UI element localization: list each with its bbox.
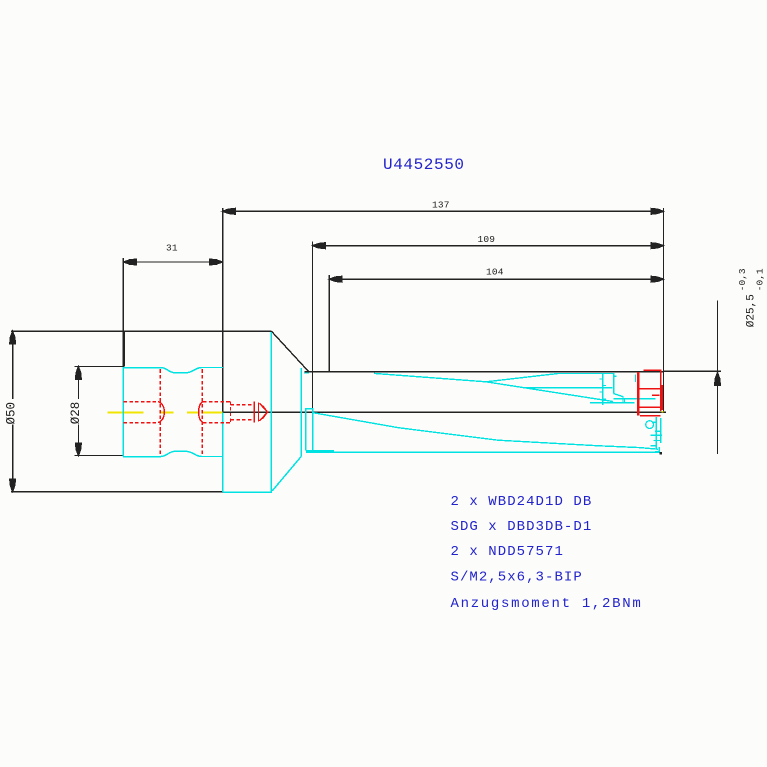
red coolant hole 1 outline — [124, 402, 165, 423]
dimension text 31 — [166, 243, 178, 254]
dimension text D25,5 -0,3 -0,1 rotated — [737, 268, 766, 327]
black drill top edge — [304, 371, 663, 373]
dimension text 109 — [478, 234, 496, 245]
svg-text:U4452550: U4452550 — [383, 156, 465, 174]
red cross hole axis 1 — [159, 369, 161, 456]
cyan drill point details — [304, 373, 662, 452]
cyan flute spiral upper A — [374, 373, 486, 381]
extension line x=222.5 for 137/31 — [222, 208, 224, 412]
blue parts list text — [451, 494, 643, 612]
cyan bottom taper diagonal — [272, 456, 301, 491]
black center line of drill — [223, 411, 666, 413]
extension line x=312.5 for 109 — [312, 241, 314, 410]
svg-text:SDG x DBD3DB-D1: SDG x DBD3DB-D1 — [451, 519, 593, 535]
cyan flute edge flat — [524, 387, 612, 389]
dimension text D50 rotated — [4, 402, 18, 425]
svg-text:104: 104 — [486, 267, 504, 278]
cyan step vertical at flute start — [300, 368, 302, 456]
extension line x=122.6 for 31 — [122, 258, 124, 367]
dimension line 137 — [223, 208, 664, 214]
dimension text 104 — [486, 267, 504, 278]
extension line to tip top edge for D25.5 — [664, 370, 721, 372]
svg-text:31: 31 — [166, 243, 178, 254]
black body outline top edge (D50 section) — [11, 330, 272, 332]
yellow centerline end dot — [662, 411, 664, 413]
yellow centerline dashes — [107, 411, 222, 413]
dimension line 31 — [124, 259, 223, 265]
cyan flute end verticals — [603, 374, 656, 405]
svg-text:2 x WBD24D1D DB: 2 x WBD24D1D DB — [451, 494, 593, 510]
dimension line 109 — [313, 243, 664, 249]
red cross hole axis 2 — [201, 369, 203, 456]
cyan flute runout box — [306, 409, 334, 451]
dimension diameter 28 vertical line with arrows — [76, 367, 82, 456]
cyan flute spiral lower D — [313, 413, 658, 450]
black taper diagonal — [272, 331, 310, 372]
black tip point dot — [660, 452, 662, 454]
cyan flange bottom edge — [223, 491, 272, 493]
dimension text D28 rotated — [69, 402, 83, 425]
cyan flange right face — [270, 332, 272, 492]
cyan flute spiral upper B back to edge — [486, 374, 615, 382]
svg-text:109: 109 — [478, 234, 496, 245]
extension line x=329.3 for 104 — [328, 275, 330, 372]
dimension line 104 — [329, 276, 663, 282]
svg-text:Ø50: Ø50 — [4, 402, 18, 425]
cyan drill bottom edge — [306, 451, 660, 453]
title U4452550 — [383, 156, 465, 174]
svg-text:Ø25,5: Ø25,5 — [746, 294, 758, 327]
black body outline bottom edge — [11, 491, 223, 493]
black body left step face — [123, 331, 125, 366]
dimension diameter 25.5 vertical line with arrow — [715, 301, 721, 454]
svg-text:-0,3: -0,3 — [737, 268, 748, 291]
red screw seat cap — [199, 402, 203, 423]
svg-text:-0,1: -0,1 — [754, 268, 765, 291]
red set screw outline — [203, 402, 268, 423]
svg-text:Ø28: Ø28 — [69, 402, 83, 425]
red insert at drill tip — [638, 370, 662, 415]
svg-text:Anzugsmoment 1,2BNm: Anzugsmoment 1,2BNm — [451, 596, 643, 612]
dimension text 137 — [432, 200, 450, 211]
svg-text:2 x NDD57571: 2 x NDD57571 — [451, 544, 564, 560]
svg-text:137: 137 — [432, 200, 450, 211]
dimension diameter 50 vertical line with arrows — [10, 331, 16, 491]
extension lines for D28 — [75, 367, 124, 456]
extension line x=663.5 at drill tip — [663, 208, 665, 411]
cyan shank neck outline with concave waist — [123, 368, 223, 457]
cyan flute spiral upper C descending — [486, 382, 635, 403]
svg-text:S/M2,5x6,3-BIP: S/M2,5x6,3-BIP — [451, 570, 583, 586]
cyan flange left edge below center — [222, 412, 224, 492]
